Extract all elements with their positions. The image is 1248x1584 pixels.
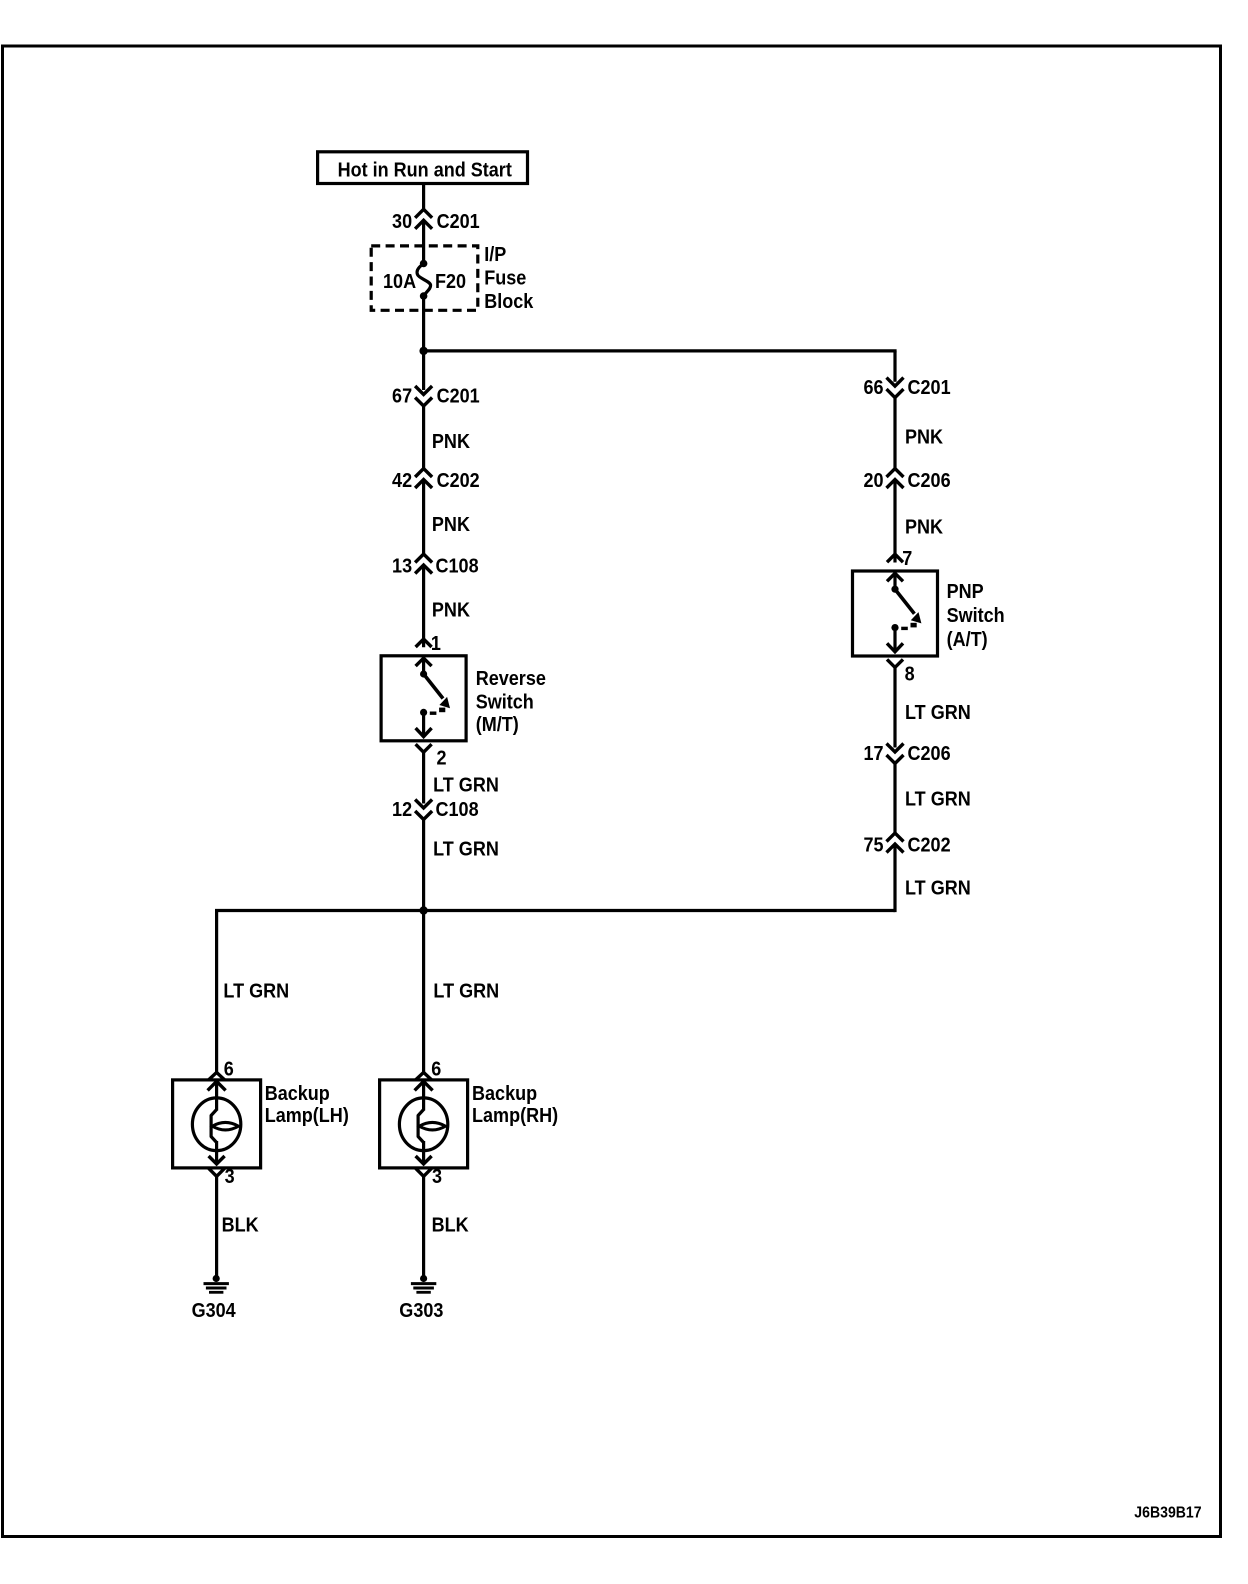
svg-text:C108: C108	[436, 799, 479, 821]
arrowhead	[887, 643, 903, 652]
wire	[215, 909, 895, 912]
connector C202 pin 75	[887, 833, 904, 842]
svg-text:LT GRN: LT GRN	[223, 981, 289, 1003]
svg-text:J6B39B17: J6B39B17	[1134, 1504, 1201, 1522]
connector C202 pin 42	[415, 469, 432, 478]
wire	[893, 573, 896, 589]
svg-text:7: 7	[902, 548, 912, 570]
arrowhead	[416, 1156, 432, 1164]
svg-text:Fuse: Fuse	[484, 268, 526, 290]
svg-text:LT GRN: LT GRN	[905, 788, 971, 810]
svg-text:BLK: BLK	[432, 1215, 469, 1237]
svg-text:BLK: BLK	[222, 1215, 259, 1237]
wire	[422, 565, 425, 647]
wire	[893, 480, 896, 563]
connector C201 pin 30	[415, 209, 432, 218]
svg-text:Switch: Switch	[476, 692, 534, 714]
wire	[893, 764, 896, 835]
svg-text:1: 1	[431, 633, 441, 655]
svg-text:C206: C206	[908, 470, 951, 492]
fuse F20 10A	[420, 260, 428, 268]
svg-text:3: 3	[225, 1166, 235, 1188]
wire	[422, 349, 897, 352]
wire	[422, 658, 425, 674]
svg-text:PNK: PNK	[905, 426, 943, 448]
wire	[422, 820, 425, 911]
connector C201 pin 66	[887, 378, 904, 387]
connector C206 pin 20	[887, 469, 904, 478]
svg-text:LT GRN: LT GRN	[905, 877, 971, 899]
wire	[422, 1176, 425, 1278]
svg-text:Backup: Backup	[265, 1083, 330, 1105]
svg-text:13: 13	[392, 556, 412, 578]
wire	[422, 752, 425, 803]
wire	[422, 220, 425, 263]
svg-text:12: 12	[392, 799, 412, 821]
switch contact (bottom)	[420, 709, 427, 716]
connector C201 pin 67	[415, 386, 432, 395]
PNP switch (A/T) box	[853, 571, 938, 656]
pin 6	[209, 1072, 225, 1080]
svg-text:LT GRN: LT GRN	[433, 775, 499, 797]
svg-text:30: 30	[392, 211, 412, 233]
ground G303	[420, 1275, 427, 1282]
svg-text:F20: F20	[435, 271, 466, 293]
svg-text:C201: C201	[437, 211, 480, 233]
svg-text:Lamp(RH): Lamp(RH)	[472, 1105, 558, 1127]
wire	[215, 1176, 218, 1278]
pin 3	[416, 1168, 432, 1176]
svg-text:Switch: Switch	[947, 605, 1005, 627]
svg-text:6: 6	[224, 1059, 234, 1081]
svg-text:Hot in Run and Start: Hot in Run and Start	[338, 159, 513, 181]
switch contact (top)	[891, 586, 898, 593]
connector C108 pin 12	[415, 800, 432, 809]
svg-text:(M/T): (M/T)	[476, 714, 519, 736]
svg-text:Block: Block	[484, 291, 533, 313]
svg-text:(A/T): (A/T)	[947, 629, 988, 651]
pin 8	[887, 659, 903, 667]
wire	[422, 911, 425, 1073]
switch blade	[424, 674, 443, 699]
svg-text:G303: G303	[399, 1300, 443, 1322]
svg-text:Backup: Backup	[472, 1083, 537, 1105]
wire	[422, 184, 425, 211]
lamp bulb	[192, 1098, 240, 1151]
pin 2	[416, 744, 432, 752]
connector C108 pin 13	[415, 554, 432, 563]
reverse switch (M/T) box	[381, 656, 466, 741]
svg-text:17: 17	[863, 743, 883, 765]
svg-text:PNK: PNK	[432, 514, 470, 536]
lamp bulb	[399, 1098, 447, 1151]
svg-text:PNK: PNK	[432, 600, 470, 622]
pin 1	[416, 639, 432, 647]
switch contact (bottom)	[891, 624, 898, 631]
svg-text:PNP: PNP	[947, 581, 984, 603]
svg-text:6: 6	[431, 1059, 441, 1081]
wire	[422, 406, 425, 470]
svg-text:42: 42	[392, 470, 412, 492]
wire	[893, 398, 896, 470]
pin 3	[209, 1168, 225, 1176]
svg-text:67: 67	[392, 386, 412, 408]
svg-text:C206: C206	[908, 743, 951, 765]
svg-text:C201: C201	[908, 377, 951, 399]
backup lamp (LH) box	[173, 1080, 261, 1168]
svg-text:I/P: I/P	[484, 244, 506, 266]
power feed box Hot in Run and Start	[318, 152, 528, 184]
switch blade	[895, 589, 914, 614]
svg-text:20: 20	[863, 470, 883, 492]
svg-text:LT GRN: LT GRN	[905, 702, 971, 724]
svg-text:LT GRN: LT GRN	[433, 981, 499, 1003]
svg-text:3: 3	[432, 1166, 442, 1188]
svg-text:10A: 10A	[383, 271, 416, 293]
wire	[422, 712, 425, 736]
svg-text:C201: C201	[437, 386, 480, 408]
junction node	[419, 906, 427, 914]
backup lamp (RH) box	[380, 1080, 468, 1168]
svg-text:66: 66	[863, 377, 883, 399]
svg-text:PNK: PNK	[432, 431, 470, 453]
svg-text:LT GRN: LT GRN	[433, 839, 499, 861]
wire	[215, 911, 218, 1073]
svg-text:Reverse: Reverse	[476, 668, 546, 690]
arrowhead	[416, 728, 432, 737]
ground G304	[213, 1275, 220, 1282]
svg-text:C202: C202	[908, 835, 951, 857]
svg-text:2: 2	[437, 748, 447, 770]
wire	[422, 351, 425, 390]
wire	[893, 844, 896, 912]
wire	[893, 351, 896, 382]
wire	[893, 628, 896, 652]
switch contact (top)	[420, 670, 427, 677]
svg-text:Lamp(LH): Lamp(LH)	[265, 1105, 349, 1127]
svg-text:PNK: PNK	[905, 517, 943, 539]
I/P Fuse Block (dashed)	[371, 246, 478, 310]
pin 6	[416, 1072, 432, 1080]
wire	[422, 296, 425, 351]
arrowhead	[209, 1156, 225, 1164]
connector C206 pin 17	[887, 744, 904, 753]
junction node	[419, 347, 427, 355]
svg-text:G304: G304	[192, 1300, 236, 1322]
wire	[893, 667, 896, 747]
wire	[422, 480, 425, 556]
svg-text:C108: C108	[436, 556, 479, 578]
pin 7	[887, 554, 903, 562]
svg-text:8: 8	[905, 663, 915, 685]
svg-text:C202: C202	[437, 470, 480, 492]
svg-text:75: 75	[863, 835, 883, 857]
